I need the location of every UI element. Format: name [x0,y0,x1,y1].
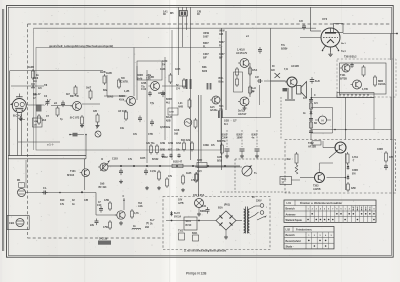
svg-text:Bereich: Bereich [286,234,296,237]
svg-text:1k2B: 1k2B [100,72,106,74]
svg-text:1kB: 1kB [174,133,179,135]
svg-text:(P01): (P01) [224,204,230,207]
svg-text:S101: S101 [186,221,192,223]
svg-text:4,7k: 4,7k [134,212,139,215]
svg-text:A/7B: A/7B [178,202,184,205]
svg-text:7,5k: 7,5k [146,78,151,80]
resistor R18 below bus [166,177,168,179]
transistor T11 AC117 [240,97,249,106]
resistor R32 [249,85,251,87]
svg-text:C204: C204 [222,137,228,140]
wire vertical x137 [136,66,138,100]
ground lamp [198,212,200,214]
svg-text:C102: C102 [162,156,168,159]
svg-text:17k: 17k [128,158,133,161]
resistor R9 [104,74,106,76]
capacitor C20 top [179,11,187,17]
wire M1 to module [26,192,97,194]
svg-text:2k2: 2k2 [42,119,47,122]
capacitor C17 electrolytic [311,77,313,80]
inductor L5 [132,228,141,229]
wire V1 anode [28,104,45,106]
capacitor C25 [207,207,209,210]
wire y97 top link [311,97,374,99]
svg-text:1k26: 1k26 [160,68,166,71]
wire y129 to right [311,129,391,131]
svg-text:B.C 4·2: B.C 4·2 [13,115,22,118]
resistor R35 [374,75,376,77]
resistor R15 [195,118,197,120]
svg-text:SL/1: SL/1 [282,179,288,181]
wire bridge right [236,220,242,222]
wire x86 riser [85,134,87,159]
svg-text:B2+B: B2+B [166,117,172,119]
svg-text:B10: B10 [60,199,65,202]
svg-text:UY3: UY3 [322,17,328,21]
wire rail y142 [18,141,60,143]
svg-text:B/3B/·: B/3B/· [281,47,288,50]
svg-text:BY114: BY114 [174,215,182,218]
svg-text:1,2B: 1,2B [124,90,129,93]
svg-text:Wellenf.Spule: Wellenf.Spule [286,219,303,222]
wire top feedthrough 4 [190,7,192,160]
svg-text:C/2N: C/2N [162,61,168,63]
detector box partial [311,107,333,109]
transistor T13 [353,80,362,89]
lamp LA1 [195,199,204,208]
table L01 dots row2 [311,213,313,215]
transformer TR1 core [245,207,247,234]
svg-text:gestrichelt: Leitungsführung (: gestrichelt: Leitungsführung (Wechselspr… [49,44,113,48]
wire M1 riser [25,160,27,188]
svg-text:C/2B: C/2B [217,157,223,159]
wire dashed AC-supply outline left [27,24,29,238]
svg-text:BV10: BV10 [186,225,192,227]
svg-text:12W: 12W [104,199,110,202]
svg-text:L02: L02 [286,228,291,232]
connector M1 [18,189,26,197]
svg-text:T102: T102 [178,231,184,233]
wire into T7 [271,80,286,82]
transistor T12 [342,64,350,72]
svg-text:FL.: FL. [219,45,223,47]
svg-text:C30B: C30B [203,145,209,147]
svg-text:14,5k: 14,5k [150,170,157,173]
capacitor C15 [259,47,261,50]
inner solid boundary left [33,28,35,150]
terminal row box [337,93,374,98]
transistor T7 output [287,77,297,87]
transistor T4 BF194 [82,169,90,177]
svg-text:AHB: AHB [178,105,183,108]
transistor T14 A134 [212,96,220,104]
resistor R41 [347,182,349,184]
svg-text:17·: 17· [33,98,37,100]
resistor R1 [32,69,34,71]
svg-text:CB1: CB1 [9,221,15,225]
svg-text:AC/117: AC/117 [238,113,247,116]
IF module box right edge [270,29,272,118]
svg-text:77p: 77p [150,102,155,105]
transistor T10 AC151 [240,59,249,68]
capacitor row c2 [170,154,172,156]
svg-text:B-C 972: B-C 972 [70,117,80,120]
resistor R20 below bus [195,172,197,174]
svg-text:C/B: C/B [84,199,88,202]
connector CB1 box [7,216,29,230]
svg-text:Antenne: Antenne [286,213,297,216]
box component below [33,118,43,127]
diode D4 [171,211,173,213]
svg-text:AF13B: AF13B [308,146,316,149]
svg-text:B307: B307 [219,42,225,44]
wire down to AF module [95,193,97,216]
transistor T9 AF125 bold [315,173,325,183]
resistor R36 [310,102,312,103]
IF can box [137,61,162,80]
wire vertical x134 [133,48,135,97]
wire dashed cap feed 1 [226,130,228,147]
IF transformer winding bars 2 [207,83,209,90]
svg-text:B+B: B+B [315,81,320,83]
resistor R29 [236,67,238,69]
svg-text:Feinabstimm.: Feinabstimm. [296,229,312,232]
capacitor C6 [151,120,153,123]
svg-text:AC151r/V: AC151r/V [236,52,247,55]
wire dashed x235 [234,159,236,192]
wire double vertical x198 [198,95,200,196]
mains plug P1 [250,206,256,209]
ratio detector module dashed box [337,59,396,97]
svg-text:B/F: B/F [203,57,207,60]
svg-text:1/0B: 1/0B [34,121,39,123]
transformer TR1 secondary [248,209,249,233]
resistor R11 [125,110,127,112]
resistor R14 [189,98,191,100]
wire x226 [225,31,227,110]
capacitor C8b [149,91,151,93]
diode D2 [347,165,349,167]
svg-text:C/B: C/B [93,111,97,113]
resistor R8 [97,113,99,115]
wire vertical x107 [106,75,108,96]
svg-text:B/0B: B/0B [160,150,166,152]
capacitor C18 [303,24,305,27]
svg-text:C/3B: C/3B [141,83,147,85]
svg-text:N2B: N2B [166,120,171,122]
scan speckle texture [132,43,135,46]
wire V2 top left [310,7,312,31]
arrow into tube [10,103,13,105]
wire bus to P1 [195,166,242,168]
svg-text:C/0· 47: C/0· 47 [33,93,41,96]
svg-text:42W: 42W [351,187,357,190]
wire rail y158 lower [8,158,86,160]
resistor R30 [236,77,238,79]
svg-text:1k55: 1k55 [175,68,181,71]
capacitor C19 [351,63,353,65]
svg-text:C/2: C/2 [255,76,259,79]
svg-text:C103: C103 [112,158,118,161]
wire vertical x172 [171,30,173,160]
svg-text:B/T3B: B/T3B [340,78,347,81]
svg-text:T101: T101 [70,170,76,173]
svg-text:1/2B: 1/2B [224,121,229,123]
crossing junction X [275,73,281,78]
table L02 dots row3 [314,245,316,247]
svg-text:C30B: C30B [352,170,358,172]
ground V1 cathode [20,116,22,118]
table L01 dots row3 [307,219,309,221]
wire main bus y166 [108,165,240,167]
wire bridge bottom [225,230,227,235]
wire dashed y192 [220,191,290,193]
wire into tube from left [300,37,321,39]
wire detector chain [310,97,312,140]
inner solid boundary top left part [34,27,317,29]
wire T8 collector down [345,153,347,190]
svg-text:22k: 22k [90,224,95,227]
svg-text:+30a: +30a [146,75,152,77]
component box C30 [168,108,178,115]
svg-text:1k55: 1k55 [140,157,146,160]
wire x391 drop [390,97,392,140]
svg-text:AF 116: AF 116 [118,110,127,113]
resistor R34 [363,65,365,67]
AF output module dashed box [285,140,396,194]
switch arrow [257,217,265,221]
svg-text:D-C11b: D-C11b [99,238,108,241]
svg-text:B30B: B30B [119,96,125,98]
label T6 collector [123,198,125,210]
svg-text:B20B: B20B [166,99,172,101]
ground T11 [244,106,246,108]
svg-text:1k07: 1k07 [86,88,92,90]
capacitor C12 [42,192,44,194]
resistor R10 [118,78,120,80]
svg-text:C/A8: C/A8 [174,129,180,132]
svg-text:1,21: 1,21 [178,103,183,105]
coupling box at tube [334,24,344,33]
resistor R28 [196,172,198,174]
svg-text:B/1B: B/1B [217,160,223,162]
svg-text:47R: 47R [389,156,394,159]
svg-text:6V: 6V [252,197,255,199]
wire right drop [390,34,392,61]
wire dashed cap feed 2 [241,130,243,147]
svg-text:No.1: No.1 [341,43,347,45]
diode D3 [347,175,349,177]
svg-text:1k4b: 1k4b [137,77,143,80]
wire top feedthrough 2 [182,7,184,47]
speaker LS1 [297,86,302,95]
table L02 voltage selector [284,227,334,249]
resistor R19 below bus [182,174,184,176]
svg-text:A10·: A10· [138,205,143,208]
wire into T6 [96,214,117,216]
svg-text:27V: 27V [219,109,224,111]
svg-text:102/4A: 102/4A [378,83,386,86]
resistor R44 [193,235,199,241]
coupling parts at x70-100 [73,133,78,137]
svg-text:C30B: C30B [377,149,383,151]
transistor T5 BF195 [100,163,108,171]
svg-text:B30·: B30· [219,78,224,80]
IF transformer winding bars 3 [218,111,220,119]
svg-text:Bereichsfeld: Bereichsfeld [286,240,301,243]
ground V2 [330,52,332,54]
svg-text:B30·: B30· [202,66,207,69]
resistor R27 [131,209,133,211]
svg-text:Skala ·: Skala · [286,245,294,248]
svg-text:1000: 1000 [237,137,243,140]
transistor T8 AF138 bold [335,142,346,153]
svg-text:A125B: A125B [313,188,321,191]
box around bias resistors [234,72,243,92]
svg-text:47k4: 47k4 [252,69,258,72]
small box at AF input [312,141,321,145]
resistor R3 [38,114,40,116]
capacitor C3 [62,101,64,104]
svg-text:B+Y: B+Y [150,220,155,222]
resistor R31 [249,66,251,68]
ground bridge [225,235,227,237]
svg-text:B+Y2: B+Y2 [174,213,181,215]
capacitor row c1 [162,154,164,156]
svg-text:10k: 10k [120,127,125,130]
IF transformer winding bars 1 [186,79,188,89]
svg-text:(7): (7) [146,222,149,225]
resistor R38 [296,152,298,154]
resistor R4 [57,106,59,108]
wire T9 left [300,177,313,179]
svg-text:B102 47: B102 47 [173,161,183,164]
capacitor row c3 [178,154,180,156]
tuner module box [36,48,221,151]
tube V1 leads down [17,112,19,155]
svg-text:BY/: BY/ [352,174,356,176]
ground cap 1 [226,154,228,156]
wire out y81 [264,80,287,82]
svg-text:C/0B: C/0B [160,143,166,145]
svg-text:220V: 220V [256,200,262,203]
switch box S101 [184,217,197,230]
svg-text:→ 11 nur bei Beleuchtungstaste: → 11 nur bei Beleuchtungstaste gedrückt [181,250,226,253]
svg-text:B07 YD: B07 YD [70,95,79,98]
wire T4 feed [84,159,86,169]
svg-text:4/: 4/ [101,158,103,161]
resistor R43 [179,233,185,240]
wire vertical x165 [164,57,166,140]
wire x374 drop [373,98,375,130]
IF module box bottom edge [222,117,271,119]
svg-text:C307: C307 [219,54,225,56]
svg-text:B30 75k: B30 75k [217,141,226,143]
transistor T6 OC71 [117,211,125,219]
svg-text:6F194: 6F194 [67,174,75,177]
svg-text:B14 32k: B14 32k [181,139,191,142]
tuner sub-box top [10,70,104,72]
capacitor C7 [162,91,164,94]
capacitor C20 [225,148,230,150]
svg-text:Philips N 12B: Philips N 12B [186,272,207,276]
resistor R22 rail cap pair b [156,144,158,146]
svg-text:410k: 410k [119,98,125,101]
svg-text:L01: L01 [287,201,292,205]
svg-text:C10: C10 [97,204,102,207]
svg-text:H: H [321,119,323,123]
transformer TR1 primary [244,209,246,233]
transistor T1 AF117 [73,102,82,111]
wire top feedthrough 3 [186,7,188,30]
svg-text:C.02: C.02 [141,88,147,91]
arrow down C17 [311,88,313,97]
svg-text:34,5: 34,5 [197,170,202,173]
wire dashed y159 [235,158,293,160]
resistor R42 [385,151,387,153]
svg-text:C/3: C/3 [299,20,303,23]
capacitor C16 [257,80,259,82]
capacitor C10 below bus [120,169,122,172]
svg-text:AC12B: AC12B [291,65,299,68]
output transformer leads [287,88,289,99]
wire vertical x147 [146,70,148,163]
svg-text:7a,1: 7a,1 [341,50,346,53]
wire lamp down [198,208,200,213]
circle H demod [319,116,327,124]
svg-text:B5AB: B5AB [107,96,114,99]
wire T9 to diode stack [327,177,346,179]
svg-text:C/2F: C/2F [197,159,203,162]
wire T2 base feed [104,95,127,97]
svg-text:17W: 17W [103,226,109,229]
component box B-L4 [197,163,207,168]
wire top feedthrough 1 [178,7,180,75]
wire tuner rail [51,105,72,107]
svg-text:292: 292 [145,226,150,229]
svg-text:1906: 1906 [33,78,39,80]
resistor R17 below bus [158,170,160,172]
wire x345 drop [345,97,347,140]
capacitor C5 [139,116,141,119]
resistor R21 rail cap pair a [150,144,152,146]
svg-text:A/134a: A/134a [210,109,218,112]
svg-text:o 1· l·: o 1· l· [47,143,54,147]
svg-text:1kB: 1kB [219,34,224,36]
svg-text:C1·: C1· [43,187,47,190]
capacitor C21 [240,148,245,150]
capacitor C24 [385,164,387,167]
svg-text:C41: C41 [202,205,207,208]
capacitor C21 [309,99,313,101]
svg-text:7k/1: 7k/1 [219,106,224,108]
svg-text:47k: 47k [168,175,173,178]
ratio detector inner box [340,63,387,94]
connector SL37 box [280,177,292,185]
resistor R6 [81,115,83,117]
svg-text:1k35: 1k35 [186,172,192,175]
svg-text:4x/5: 4x/5 [210,106,215,109]
wire V2 anode right [343,33,397,35]
tube V1 ECC85 [12,99,26,113]
svg-text:C: C [123,195,125,198]
power module dashed box [163,197,270,250]
tube V2 UY85 rectifier [321,28,340,47]
bridge rectifier BR1 [216,211,236,230]
svg-text:17k: 17k [60,203,65,206]
resistor R37 [310,121,312,122]
trimmer circle small [95,131,101,137]
